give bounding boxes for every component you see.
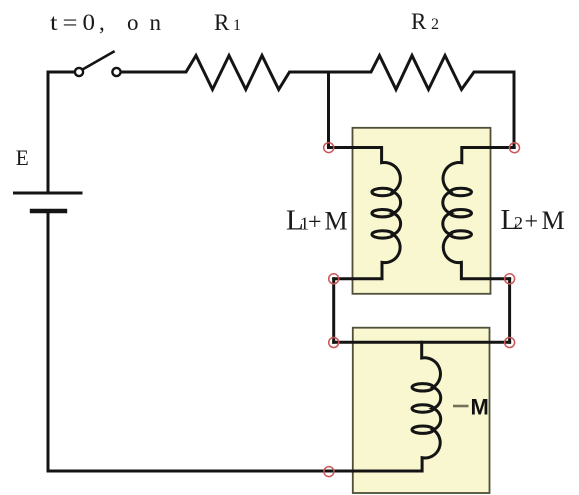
node: bottom right terminal of L-box bbox=[505, 274, 515, 284]
battery E long plate bbox=[15, 192, 82, 195]
svg-text:,: , bbox=[99, 10, 105, 35]
svg-text:o: o bbox=[127, 10, 139, 35]
inductor L2+M: leads and coil arcs (mirrored) bbox=[443, 148, 514, 279]
svg-text:M: M bbox=[471, 395, 489, 420]
svg-text:M: M bbox=[325, 207, 348, 236]
node: bottom left terminal of L-box bbox=[329, 274, 339, 284]
node: top left terminal bbox=[324, 143, 334, 153]
svg-text:t: t bbox=[50, 10, 58, 35]
inductor L2+M: turn ellipse 1 bbox=[450, 188, 471, 195]
inductor -M: leads and coil arcs bbox=[422, 342, 441, 471]
inductor -M: turn ellipse 1 bbox=[412, 384, 433, 391]
wire: switch stub and left rail down to battery bbox=[48, 72, 75, 192]
svg-text:2: 2 bbox=[431, 16, 439, 33]
wire: battery down and bottom rail to -M coil bbox=[48, 213, 422, 471]
coupling box (-M) bbox=[353, 328, 490, 493]
svg-text:M: M bbox=[542, 206, 565, 235]
svg-text:=: = bbox=[63, 10, 78, 35]
svg-text:n: n bbox=[150, 10, 162, 35]
node: top right terminal bbox=[510, 143, 520, 153]
switch blade bbox=[83, 52, 114, 70]
svg-text:0: 0 bbox=[83, 10, 96, 35]
wire from switch, resistor R1, wire, resistor R2, wire to right corner bbox=[121, 56, 514, 148]
inductor -M: turn ellipse 3 bbox=[412, 426, 433, 433]
inductor -M: turn ellipse 2 bbox=[412, 405, 433, 412]
svg-text:+: + bbox=[525, 209, 539, 235]
node: bottom rail terminal bbox=[324, 467, 334, 477]
switch throw contact bbox=[112, 68, 120, 76]
wire: junction drop from R1/R2 node bbox=[327, 72, 330, 148]
inductor L1+M: leads and coil arcs bbox=[329, 148, 401, 279]
wire: left drop between boxes bbox=[332, 279, 335, 343]
switch pole contact bbox=[75, 68, 83, 76]
inductor L1+M: turn ellipse 2 bbox=[372, 210, 393, 217]
label -M : minus stroke bbox=[453, 405, 469, 408]
wire: right drop between boxes bbox=[508, 279, 511, 343]
inductor L2+M: turn ellipse 2 bbox=[450, 210, 471, 217]
node: left terminal of -M link bbox=[329, 338, 339, 348]
node: right terminal of -M link bbox=[505, 338, 515, 348]
battery E short plate bbox=[32, 209, 65, 213]
svg-text:2: 2 bbox=[514, 213, 523, 233]
svg-text:1: 1 bbox=[233, 17, 241, 34]
coupling box (L1,L2) bbox=[353, 128, 491, 294]
inductor L1+M: turn ellipse 3 bbox=[372, 231, 393, 238]
svg-text:+: + bbox=[308, 210, 322, 236]
svg-text:E: E bbox=[16, 145, 29, 170]
wire: cross link between lower nodes bbox=[334, 341, 510, 344]
inductor L1+M: turn ellipse 1 bbox=[372, 188, 393, 195]
svg-text:R: R bbox=[411, 9, 427, 34]
inductor L2+M: turn ellipse 3 bbox=[450, 231, 471, 238]
svg-text:R: R bbox=[214, 10, 230, 35]
